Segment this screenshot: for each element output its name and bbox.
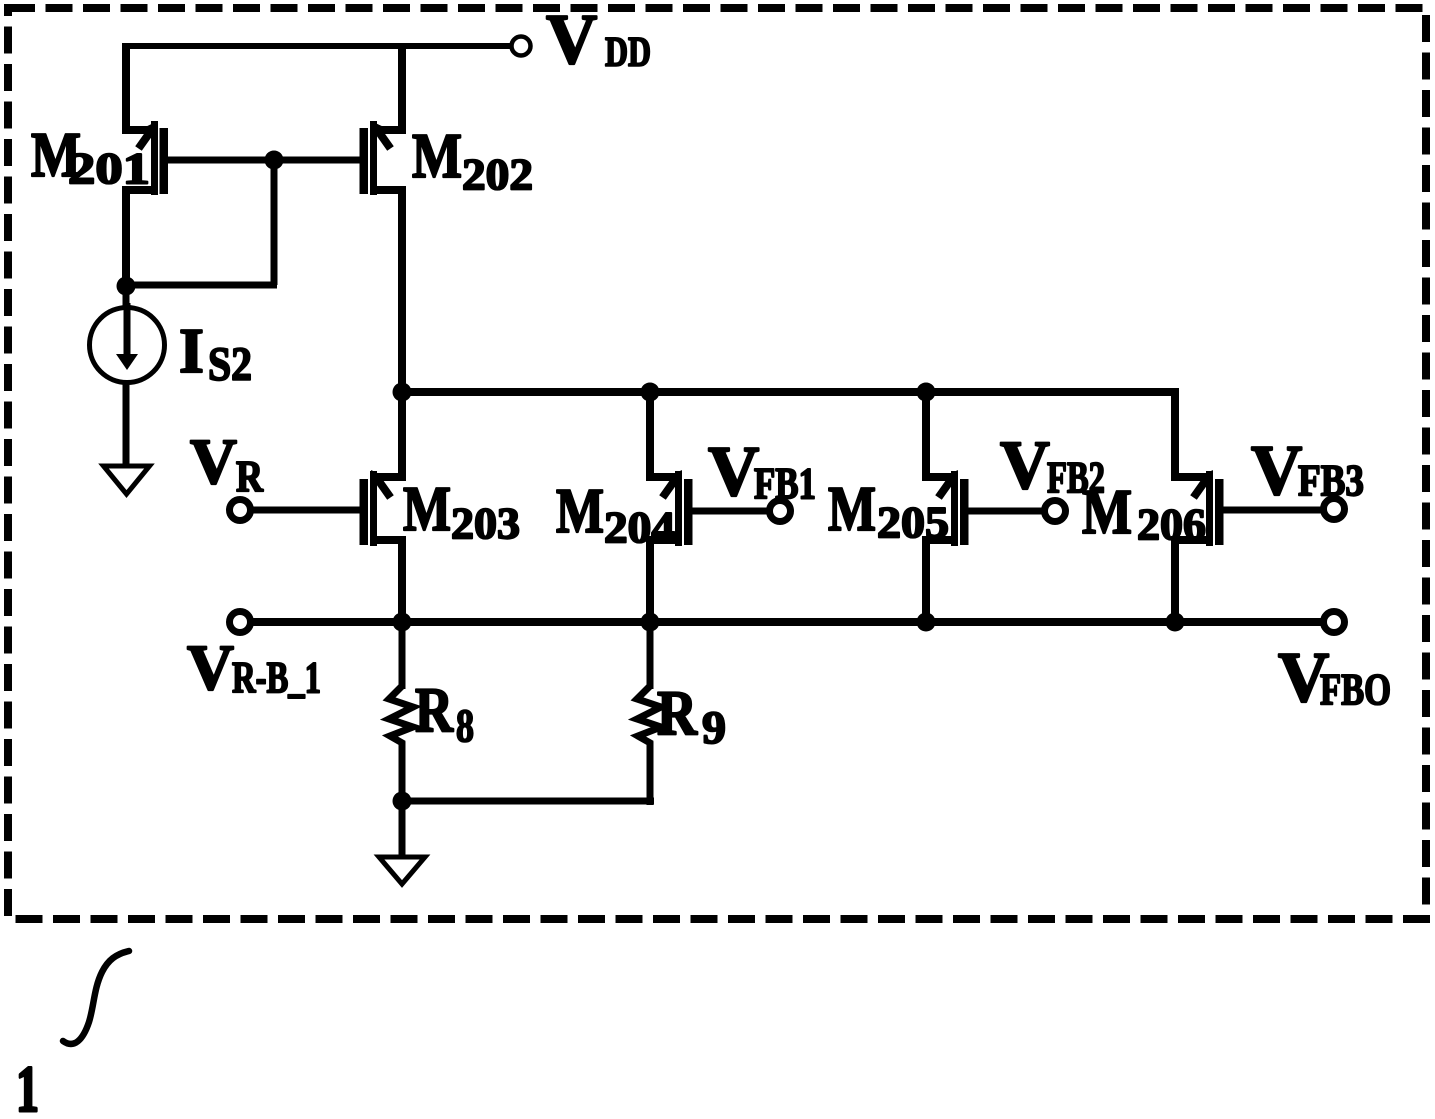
transistor M206 bbox=[1171, 470, 1224, 546]
label M201 bbox=[31, 119, 150, 193]
label M204 bbox=[556, 475, 675, 552]
svg-text:M: M bbox=[403, 473, 451, 544]
svg-text:1: 1 bbox=[16, 1053, 39, 1114]
wire bottom bus bbox=[252, 618, 1322, 626]
svg-text:203: 203 bbox=[451, 499, 520, 548]
label VDD bbox=[546, 1, 651, 79]
svg-text:V: V bbox=[1251, 432, 1302, 510]
wire M206 source lead bbox=[1171, 536, 1179, 626]
svg-text:R-B_1: R-B_1 bbox=[232, 653, 321, 702]
svg-text:205: 205 bbox=[877, 498, 949, 547]
wire M205 drain lead bbox=[922, 388, 930, 481]
node top bus M204 junction bbox=[641, 383, 660, 402]
wire M205 source lead bbox=[922, 536, 930, 626]
wire M206 gate lead bbox=[1223, 507, 1323, 514]
node gate junction bbox=[265, 151, 284, 170]
terminal VFB1 bbox=[770, 501, 791, 522]
svg-text:FB3: FB3 bbox=[1298, 456, 1364, 505]
wire R8 bottom lead bbox=[399, 742, 406, 858]
transistor M203 bbox=[360, 470, 407, 546]
label IS2 bbox=[179, 315, 252, 391]
svg-text:V: V bbox=[190, 426, 237, 498]
wire M203 source lead bbox=[398, 536, 406, 626]
transistor M204 bbox=[646, 470, 693, 546]
label VR-B_1 bbox=[187, 632, 321, 704]
label VFBO bbox=[1278, 639, 1391, 717]
node top bus M205 junction bbox=[917, 383, 936, 402]
label VFB3 bbox=[1251, 432, 1364, 510]
wire M204 gate lead bbox=[692, 508, 769, 515]
svg-text:201: 201 bbox=[68, 144, 150, 193]
terminal VR-B_1 bbox=[230, 612, 251, 633]
wire M202 source lead bbox=[398, 43, 406, 134]
figure reference squiggle bbox=[63, 951, 129, 1044]
wire M204 drain lead bbox=[646, 388, 654, 481]
svg-text:R: R bbox=[657, 677, 698, 748]
ground (IS2) bbox=[104, 466, 150, 494]
svg-text:DD: DD bbox=[605, 30, 651, 76]
wire VDD rail bbox=[122, 43, 510, 49]
wire M204 source lead bbox=[646, 536, 654, 626]
node bottom bus M203 junction bbox=[393, 613, 412, 632]
node R8-R9 bottom junction bbox=[393, 792, 412, 811]
svg-text:9: 9 bbox=[702, 702, 726, 754]
label R9 bbox=[657, 677, 726, 754]
node bottom bus M206 junction bbox=[1166, 613, 1185, 632]
label VFB2 bbox=[1000, 427, 1105, 503]
ground (R8) bbox=[379, 857, 425, 884]
node bottom bus M205 junction bbox=[917, 613, 936, 632]
label 1 bbox=[16, 1053, 39, 1119]
svg-text:V: V bbox=[1000, 427, 1050, 503]
wire M205 gate lead bbox=[968, 508, 1044, 515]
label M203 bbox=[403, 473, 520, 548]
svg-text:V: V bbox=[187, 632, 234, 704]
wire VR to M203 gate bbox=[252, 507, 360, 514]
terminal VFBO bbox=[1324, 612, 1345, 633]
wire R8 top lead bbox=[399, 622, 406, 689]
svg-text:M: M bbox=[828, 473, 876, 544]
wire R9 bottom lead bbox=[647, 742, 654, 805]
label VFB1 bbox=[708, 433, 816, 511]
svg-text:V: V bbox=[546, 1, 597, 79]
transistor M202 bbox=[360, 121, 407, 195]
wire M202 drain down to M203 bbox=[398, 186, 406, 481]
wire R9 to R8 bottom bbox=[398, 798, 654, 805]
wire into IS2 bbox=[123, 285, 130, 310]
svg-text:S2: S2 bbox=[208, 338, 252, 391]
label M206 bbox=[1082, 476, 1206, 549]
terminal VFB2 bbox=[1045, 501, 1066, 522]
wire gate feedback bbox=[126, 156, 277, 285]
current source IS2 bbox=[90, 303, 165, 383]
svg-text:8: 8 bbox=[456, 700, 474, 752]
label M205 bbox=[828, 473, 949, 547]
svg-text:R: R bbox=[415, 674, 454, 745]
wire M201 gate to M202 gate bbox=[168, 157, 360, 164]
svg-text:M: M bbox=[1082, 476, 1132, 547]
svg-text:M: M bbox=[412, 120, 462, 191]
resistor R8 bbox=[389, 686, 413, 744]
svg-text:R: R bbox=[236, 452, 264, 501]
wire IS2 to ground bbox=[123, 382, 130, 466]
svg-text:202: 202 bbox=[462, 150, 533, 199]
terminal VR bbox=[230, 500, 251, 521]
terminal VDD bbox=[512, 37, 531, 56]
wire M201 drain lead bbox=[122, 186, 130, 289]
label VR bbox=[190, 426, 264, 501]
label M202 bbox=[412, 120, 533, 199]
transistor M205 bbox=[922, 470, 969, 546]
wire R9 top lead bbox=[647, 622, 654, 689]
wire top bus bbox=[398, 388, 1179, 481]
svg-text:FB1: FB1 bbox=[754, 459, 816, 508]
terminal VFB3 bbox=[1324, 499, 1345, 520]
node bottom bus M204 junction bbox=[641, 613, 660, 632]
resistor R9 bbox=[637, 686, 661, 744]
node drain-gate junction bbox=[117, 277, 136, 296]
label R8 bbox=[415, 674, 474, 752]
svg-text:204: 204 bbox=[604, 503, 675, 552]
svg-text:V: V bbox=[708, 433, 759, 511]
wire M201 source lead bbox=[122, 43, 130, 134]
svg-text:I: I bbox=[179, 315, 204, 386]
svg-text:M: M bbox=[556, 475, 604, 546]
node top bus left junction bbox=[393, 383, 412, 402]
svg-text:FBO: FBO bbox=[1320, 665, 1391, 714]
transistor M201 bbox=[122, 121, 168, 195]
